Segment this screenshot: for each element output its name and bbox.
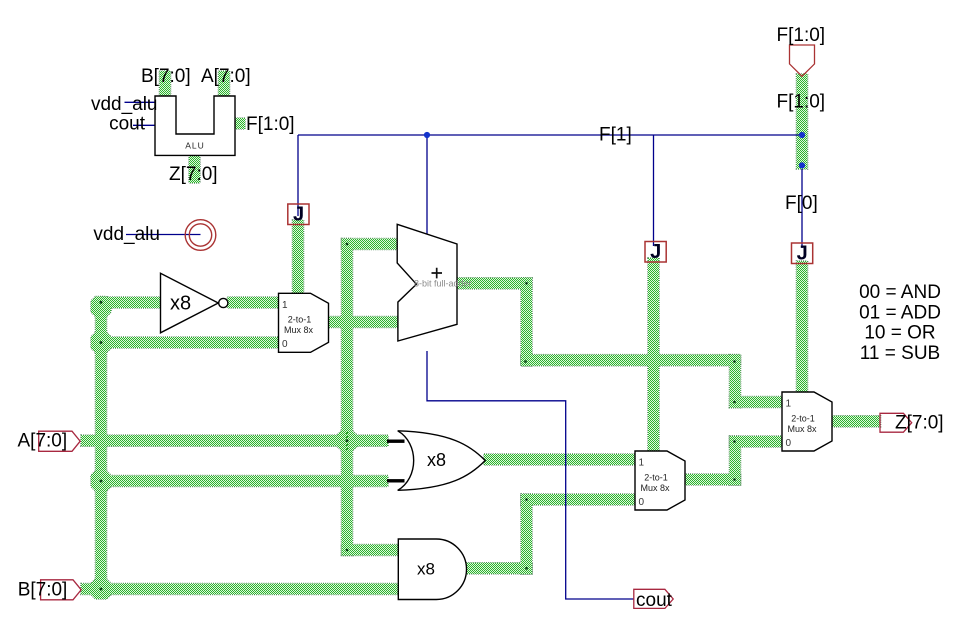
label + adder bbox=[432, 268, 443, 279]
blue wire J2 riser bbox=[653, 135, 655, 246]
junction center dots bbox=[100, 301, 103, 304]
mux1 pin and name labels bbox=[282, 300, 792, 508]
svg-text:Mux 8x: Mux 8x bbox=[640, 483, 670, 493]
svg-text:00 = AND: 00 = AND bbox=[859, 282, 941, 303]
blue wire vdd_alu symbol stub bbox=[126, 234, 201, 236]
svg-text:J: J bbox=[650, 241, 661, 263]
junction dot F1 tap at adder riser bbox=[424, 132, 430, 138]
jumper J1 bbox=[288, 204, 309, 225]
svg-text:1: 1 bbox=[282, 300, 288, 311]
svg-text:Z[7:0]: Z[7:0] bbox=[169, 164, 218, 185]
port F[1:0] (output, pointing down) bbox=[790, 45, 815, 76]
blue wire cout route bbox=[427, 351, 634, 599]
svg-text:A[7:0]: A[7:0] bbox=[201, 66, 251, 87]
svg-text:F[1:0]: F[1:0] bbox=[246, 114, 295, 135]
svg-text:F[1:0]: F[1:0] bbox=[777, 92, 826, 113]
port Z[7:0] bbox=[880, 413, 912, 432]
blue wire ALU cout stub bbox=[133, 124, 155, 126]
mux3 2-to-1 Mux 8x bbox=[782, 392, 832, 451]
svg-text:cout: cout bbox=[109, 114, 146, 135]
svg-text:J: J bbox=[797, 243, 808, 265]
mux1 2-to-1 Mux 8x bbox=[279, 293, 329, 352]
jumper J3 bbox=[792, 243, 813, 264]
svg-text:0: 0 bbox=[639, 497, 645, 508]
junction dot F bus tap F0 bbox=[799, 162, 805, 168]
svg-text:F[1:0]: F[1:0] bbox=[777, 25, 826, 46]
bus connect marker at A junction bbox=[346, 432, 348, 450]
inverter x8 bbox=[161, 273, 219, 333]
svg-text:cout: cout bbox=[636, 590, 673, 611]
blue wire adder carry-in drop bbox=[426, 135, 428, 234]
svg-text:ALU: ALU bbox=[185, 141, 205, 151]
svg-text:F[1]: F[1] bbox=[599, 125, 632, 146]
svg-text:vdd_alu: vdd_alu bbox=[93, 224, 160, 245]
svg-text:x8: x8 bbox=[417, 560, 435, 579]
svg-text:Mux 8x: Mux 8x bbox=[284, 325, 314, 335]
svg-text:2-to-1: 2-to-1 bbox=[288, 315, 312, 325]
OR gate x8 input pins bbox=[387, 440, 405, 443]
svg-text:A[7:0]: A[7:0] bbox=[18, 431, 68, 452]
svg-text:x8: x8 bbox=[170, 293, 191, 315]
svg-text:1: 1 bbox=[786, 399, 792, 410]
svg-text:vdd_alu: vdd_alu bbox=[91, 94, 158, 115]
svg-text:J: J bbox=[293, 204, 304, 226]
port B[7:0] bbox=[41, 580, 82, 600]
OR gate x8 bbox=[398, 431, 486, 491]
svg-text:11 = SUB: 11 = SUB bbox=[860, 343, 940, 364]
adder 8-bit full-adder bbox=[397, 224, 457, 341]
mux2 2-to-1 Mux 8x bbox=[635, 451, 685, 510]
svg-text:10 = OR: 10 = OR bbox=[864, 323, 935, 344]
ALU symbol U1 bbox=[155, 96, 235, 155]
svg-text:1: 1 bbox=[639, 458, 645, 469]
svg-text:2-to-1: 2-to-1 bbox=[791, 413, 815, 423]
junction dot F bus tap F1 bbox=[799, 132, 805, 138]
blue wire J1 riser bbox=[297, 135, 299, 216]
jumper J2 bbox=[645, 242, 666, 263]
port cout bbox=[634, 589, 673, 608]
AND gate x8 bbox=[398, 539, 466, 600]
svg-text:Z[7:0]: Z[7:0] bbox=[895, 413, 944, 434]
vdd_alu supply symbol (double circle) bbox=[185, 220, 216, 251]
blue wire F[1] horizontal bbox=[125, 102, 803, 599]
svg-text:0: 0 bbox=[786, 438, 792, 449]
svg-text:0: 0 bbox=[282, 339, 288, 350]
svg-text:2-to-1: 2-to-1 bbox=[644, 472, 668, 482]
blue wire F[0] to J3 bbox=[801, 169, 803, 248]
svg-text:B[7:0]: B[7:0] bbox=[141, 66, 191, 87]
wire vertex dots bbox=[100, 243, 736, 591]
blue wire ALU vdd stub bbox=[125, 101, 156, 103]
svg-text:Mux 8x: Mux 8x bbox=[787, 424, 817, 434]
svg-text:8-bit full-adder: 8-bit full-adder bbox=[414, 279, 472, 289]
svg-text:x8: x8 bbox=[427, 450, 446, 470]
svg-text:B[7:0]: B[7:0] bbox=[18, 579, 68, 600]
port A[7:0] bbox=[39, 431, 80, 451]
svg-text:F[0]: F[0] bbox=[785, 193, 818, 214]
svg-text:01 = ADD: 01 = ADD bbox=[859, 302, 941, 323]
